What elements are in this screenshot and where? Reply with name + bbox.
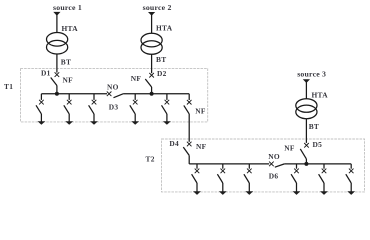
wire D2 to bus T1: [151, 87, 153, 94]
feeder F8 lower wire: [248, 183, 250, 192]
tie switch contact cross: [187, 100, 192, 105]
feeder F7 arrow: [219, 191, 227, 195]
tie wire T1 to D4: [188, 114, 190, 142]
svg-text:NO: NO: [268, 152, 280, 161]
switch D3 (NO) contact cross: [107, 92, 112, 97]
svg-text:source 3: source 3: [297, 70, 326, 79]
wire source3 to transformer: [305, 81, 307, 99]
feeder F4 arrow: [131, 121, 139, 124]
feeder F9 wire: [296, 164, 298, 169]
feeder F6 arrow: [193, 191, 201, 195]
feeder F3 contact cross: [92, 100, 97, 105]
switch D4 blade: [183, 147, 189, 155]
feeder F7 contact cross: [221, 169, 226, 174]
source 3 terminal arrow: [303, 79, 310, 83]
svg-text:source 1: source 1: [53, 3, 82, 12]
feeder F1 blade: [36, 105, 41, 114]
feeder F7 lower wire: [222, 183, 224, 192]
feeder F2 arrow: [65, 121, 73, 124]
feeder F6 blade: [192, 174, 197, 183]
svg-text:NF: NF: [63, 76, 74, 85]
bus T2 right section: [284, 163, 351, 165]
switch D6 blade: [275, 164, 285, 167]
wire TR2 to D2: [151, 54, 153, 73]
svg-text:source 2: source 2: [143, 3, 172, 12]
switch D5 contact cross: [304, 143, 309, 148]
feeder F2 contact cross: [67, 100, 72, 105]
feeder F4 blade: [130, 105, 135, 114]
wire source2 to transformer: [151, 14, 153, 34]
wire TR1 to D1: [56, 54, 58, 73]
feeder F9 contact cross: [294, 169, 299, 174]
svg-text:NF: NF: [131, 74, 142, 83]
feeder F7 blade: [217, 174, 222, 183]
feeder F3 blade: [89, 105, 94, 114]
feeder F1 lower wire: [40, 114, 42, 122]
tie feeder wire from bus T1: [188, 94, 190, 100]
svg-text:T1: T1: [4, 82, 13, 91]
svg-text:NF: NF: [196, 142, 207, 151]
bus T1 right section: [123, 93, 189, 95]
switch D1 contact cross: [55, 72, 60, 77]
feeder F5 lower wire: [166, 114, 168, 122]
feeder F11 lower wire: [350, 183, 352, 192]
wire D5 to bus T2: [305, 159, 307, 164]
feeder F6 contact cross: [195, 169, 200, 174]
svg-text:NF: NF: [284, 143, 295, 152]
feeder F10 lower wire: [323, 183, 325, 192]
feeder F5 wire: [166, 94, 168, 100]
switch D2 blade: [145, 79, 151, 87]
feeder F1 contact cross: [39, 100, 44, 105]
switch D6 (NO) contact cross: [269, 162, 274, 167]
svg-text:HTA: HTA: [156, 23, 173, 32]
svg-text:D3: D3: [109, 102, 119, 111]
svg-text:NF: NF: [195, 107, 206, 116]
svg-text:D6: D6: [269, 171, 279, 180]
feeder F5 blade: [162, 105, 167, 114]
node source1/bus junction: [55, 92, 59, 96]
transformer TR3: [296, 99, 317, 113]
svg-text:D5: D5: [313, 140, 323, 149]
feeder F2 wire: [68, 94, 70, 100]
bus T2 left section: [189, 163, 269, 165]
feeder F6 wire: [196, 164, 198, 169]
feeder F8 contact cross: [247, 169, 252, 174]
switch D4 contact cross: [187, 142, 192, 147]
feeder F2 blade: [64, 105, 69, 114]
feeder F8 wire: [248, 164, 250, 169]
feeder F9 blade: [291, 174, 296, 183]
feeder F6 lower wire: [196, 183, 198, 192]
svg-text:T2: T2: [146, 155, 155, 164]
feeder F10 contact cross: [322, 169, 327, 174]
switch D5 blade: [300, 149, 306, 159]
switch D1 blade: [51, 78, 57, 86]
feeder F1 arrow: [38, 121, 46, 124]
bus T1 left section: [41, 93, 107, 95]
feeder F4 contact cross: [133, 100, 138, 105]
feeder F9 lower wire: [296, 183, 298, 192]
feeder F2 lower wire: [68, 114, 70, 122]
feeder F8 blade: [244, 174, 249, 183]
feeder F8 arrow: [245, 191, 253, 195]
source 1 terminal arrow: [53, 12, 60, 16]
svg-text:HTA: HTA: [62, 24, 79, 33]
feeder F10 wire: [323, 164, 325, 169]
feeder F3 lower wire: [93, 114, 95, 122]
feeder F1 wire: [40, 94, 42, 100]
svg-text:D2: D2: [157, 69, 167, 78]
feeder F10 arrow: [320, 191, 328, 195]
feeder F9 arrow: [293, 191, 301, 195]
tie switch blade: [184, 105, 189, 114]
svg-text:BT: BT: [61, 57, 71, 66]
switch D2 contact cross: [149, 73, 154, 78]
feeder F11 blade: [346, 174, 351, 183]
feeder F5 contact cross: [165, 100, 170, 105]
feeder F11 arrow: [347, 191, 355, 195]
svg-text:D1: D1: [41, 68, 51, 77]
feeder F5 arrow: [163, 121, 171, 124]
feeder F3 arrow: [90, 121, 98, 124]
wire D4 to bus T2: [188, 155, 190, 164]
svg-text:BT: BT: [156, 55, 166, 64]
busbar box T1: [21, 68, 208, 122]
svg-text:NO: NO: [107, 82, 119, 91]
feeder F7 wire: [222, 164, 224, 169]
wire source1 to transformer: [56, 14, 58, 33]
source 2 terminal arrow: [148, 12, 155, 16]
svg-text:BT: BT: [309, 122, 319, 131]
svg-text:HTA: HTA: [312, 91, 329, 100]
svg-text:D4: D4: [169, 139, 179, 148]
feeder F11 wire: [350, 164, 352, 169]
wire TR3 to D5: [305, 119, 307, 143]
transformer TR1: [47, 33, 68, 47]
feeder F4 wire: [134, 94, 136, 100]
switch D3 blade: [114, 94, 124, 98]
feeder F11 contact cross: [349, 169, 354, 174]
transformer TR2: [141, 33, 162, 47]
node source2/bus junction: [150, 92, 154, 96]
node source3/bus junction: [304, 162, 308, 166]
feeder F4 lower wire: [134, 114, 136, 122]
feeder F3 wire: [93, 94, 95, 100]
wire D1 to bus T1: [56, 86, 58, 94]
feeder F10 blade: [319, 174, 324, 183]
busbar box T2: [162, 139, 365, 192]
